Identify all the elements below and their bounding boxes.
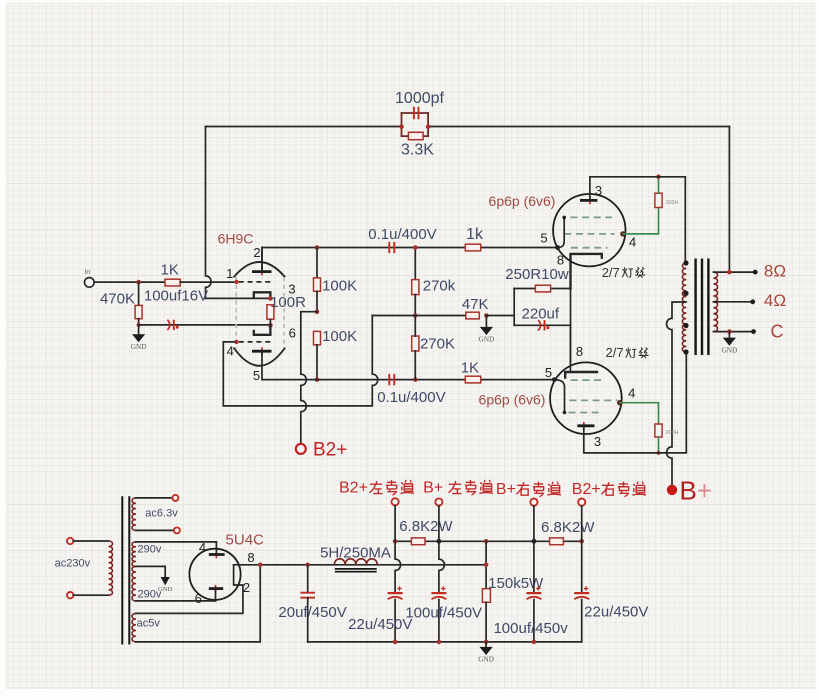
terminal B2+ (296, 444, 306, 454)
triode U1 cathode B (254, 325, 271, 335)
inductor L1 choke 5H/250MA (334, 559, 377, 565)
wire 290v top to rectifier plate (136, 541, 217, 543)
svg-text:100uf16V: 100uf16V (144, 287, 208, 304)
transformer T2 primary winding (109, 541, 113, 595)
terminal B+ right channel (530, 499, 537, 506)
pentode V2 cathode pin 8 (571, 254, 602, 289)
capacitor 0.1u/400V bottom coupling (389, 374, 394, 385)
svg-text:100uf/450v: 100uf/450v (493, 620, 568, 637)
node secondary ground tap (727, 329, 732, 334)
pentode V2 plate pin 3 (589, 197, 591, 205)
wire B+ left channel line (hop over bus) (439, 506, 444, 593)
svg-text:2/7: 2/7 (602, 265, 620, 280)
node cathode A / feedback / 100R top (268, 296, 273, 301)
terminal ac6.3v top (172, 495, 178, 501)
capacitor 20uf/450V (307, 565, 309, 593)
wire feedback top rail right segment (428, 126, 729, 128)
svg-text:GND: GND (158, 586, 173, 593)
node pin 4 (234, 340, 238, 344)
svg-text:1K: 1K (161, 262, 179, 279)
wire divider mid to B2+ (hops over both plate rails) (301, 312, 317, 444)
node divider mid (315, 309, 320, 314)
wire feedback right vertical to output transformer 8 ohm tap (728, 127, 730, 273)
wire cathode return to 100R bottom (139, 324, 271, 326)
svg-text:0.1u/400V: 0.1u/400V (377, 389, 445, 406)
svg-text:B+: B+ (680, 476, 713, 506)
wire ac6.3v bottom (136, 529, 174, 531)
triode U1 envelope bottom arc (234, 349, 284, 366)
wire secondary 8 ohm tap (713, 271, 755, 273)
svg-text:100K: 100K (322, 328, 357, 345)
wire mid rail to 47K (372, 315, 466, 317)
terminal B+ left channel (435, 498, 442, 505)
resistor 150k5W bleeder (485, 541, 487, 588)
resistor 100K divider upper (316, 248, 318, 278)
wire V3 plate rail to transformer primary bottom (584, 352, 687, 453)
node common terminal (751, 329, 756, 334)
wire bias block left rail (513, 289, 515, 326)
capacitor 100uf/450v right (526, 592, 541, 594)
wire ac5v bottom to B+ bus (136, 565, 260, 642)
wire B2+ left channel line (hop over bus) (395, 505, 400, 593)
pentode V3 envelope (550, 362, 622, 434)
svg-text:100uf/450V: 100uf/450V (405, 605, 482, 622)
ground GND mid (485, 316, 487, 327)
node 100R bottom / cathode B (268, 323, 273, 328)
svg-text:4: 4 (199, 540, 206, 555)
terminal B+ main (667, 485, 677, 495)
wire grid-B return (hop over lower rail) to pin 4 (223, 316, 377, 406)
transformer T2 winding 290v lower (132, 566, 136, 601)
svg-text:0.1u/400V: 0.1u/400V (368, 226, 436, 243)
svg-text:5H/250MA: 5H/250MA (320, 544, 391, 561)
resistor 3.3K (parallel block bottom branch) (402, 135, 429, 137)
svg-text:100K: 100K (322, 277, 357, 294)
resistor 270K lower (412, 336, 419, 351)
node primary bottom (683, 349, 688, 354)
node 22u left on ground bus (393, 640, 398, 645)
svg-text:2: 2 (243, 580, 250, 595)
svg-text:B+: B+ (496, 481, 516, 498)
svg-text:6.8K2W: 6.8K2W (399, 518, 453, 535)
svg-text:6p6p (6v6): 6p6p (6v6) (479, 391, 546, 407)
svg-text:6: 6 (195, 591, 202, 606)
svg-text:200H: 200H (666, 200, 679, 206)
svg-text:20uf/450V: 20uf/450V (278, 604, 346, 621)
svg-text:270k: 270k (423, 278, 456, 295)
svg-text:47K: 47K (462, 296, 489, 313)
wire screen to 200R (green) (623, 208, 659, 234)
wire 47K node to bias block (486, 315, 514, 317)
rectifier V4 plate pin 6 (215, 585, 217, 593)
node 4 ohm terminal (750, 299, 755, 304)
node screen resistor on plate rail (656, 175, 661, 180)
svg-text:220uf: 220uf (522, 306, 560, 323)
capacitor 100uf/450V left (431, 592, 446, 594)
node bleeder on ground bus (484, 640, 489, 645)
svg-text:5U4C: 5U4C (226, 532, 265, 549)
node screen grid pin 4 (620, 231, 625, 236)
capacitor 22u/450V right (574, 592, 589, 594)
triode U1 grid B dashed pin 4 (239, 341, 271, 343)
resistor 270k upper (414, 248, 416, 280)
resistor 250R10w cathode bias (514, 288, 570, 290)
transformer T1 core (694, 259, 696, 356)
svg-text:200H: 200H (666, 430, 679, 436)
wire ac5v top to filament pin 2 (136, 565, 243, 614)
svg-text:6: 6 (289, 325, 296, 340)
pentode V2 grids dashed (564, 217, 614, 247)
wire HV centre tap (136, 565, 165, 567)
wire grid jog bottom (554, 380, 564, 413)
node 20uf tap (305, 563, 310, 568)
capacitor 22u/450V left (388, 592, 403, 594)
wire 200R to plate rail bottom (green) (658, 437, 660, 453)
wire grid jog to dashed grid (558, 217, 565, 247)
svg-text:ac230v: ac230v (55, 558, 91, 570)
transformer T2 winding 290v upper (132, 542, 136, 567)
resistor 200R screen top (655, 193, 662, 207)
svg-text:3: 3 (594, 434, 601, 449)
svg-text:6p6p (6v6): 6p6p (6v6) (489, 193, 556, 209)
resistor 100R cathode coupling (267, 305, 274, 320)
node B2+ left / 6.8K left (393, 539, 398, 544)
svg-text:4: 4 (629, 235, 636, 250)
node primary tap upper (683, 291, 688, 296)
svg-text:B+: B+ (423, 480, 443, 497)
svg-text:ac5v: ac5v (137, 618, 161, 630)
triode U1 plate A pin 2 (261, 268, 263, 276)
wire 200R to plate rail (green) (658, 178, 660, 194)
node screen resistor on bottom rail (657, 451, 661, 455)
triode U1 envelope top arc (234, 262, 284, 277)
svg-text:B2+: B2+ (339, 480, 368, 497)
svg-text:B2+: B2+ (572, 481, 601, 498)
wire B2+ right channel line (581, 506, 583, 593)
node 47K right / ground tap (484, 313, 489, 318)
svg-text:ac6.3v: ac6.3v (145, 508, 178, 520)
capacitor 0.1u/400V top coupling (389, 242, 394, 253)
svg-text:GND: GND (478, 655, 494, 664)
svg-text:22u/450V: 22u/450V (584, 603, 648, 620)
ground GND centre tap arrow (164, 566, 166, 577)
node 8 ohm terminal (753, 270, 758, 275)
node screen grid pin 4 bottom (617, 400, 622, 405)
svg-text:22u/450V: 22u/450V (348, 616, 412, 633)
svg-text:3.3K: 3.3K (401, 141, 434, 158)
node primary top (683, 260, 688, 265)
svg-text:150k5W: 150k5W (488, 575, 544, 592)
transformer T2 winding ac5v (132, 613, 136, 642)
resistor 1K grid stopper (165, 279, 180, 286)
node pin 1 (234, 280, 238, 284)
svg-text:4Ω: 4Ω (764, 291, 786, 310)
node 100uf left on ground bus (437, 640, 442, 645)
transformer T2 winding ac6.3v (132, 498, 136, 531)
svg-text:250R10w: 250R10w (505, 266, 569, 283)
svg-text:8: 8 (247, 550, 254, 565)
ground GND main filter (485, 642, 487, 647)
resistor 1k top grid stopper (465, 244, 480, 251)
terminal mains top (67, 538, 73, 544)
wire feedback top rail left segment (206, 126, 402, 128)
pentode V2 envelope (553, 194, 625, 266)
wire ac6.3v top (136, 497, 172, 499)
terminal ac6.3v bottom (174, 527, 180, 533)
wire ground bus bottom (308, 641, 582, 643)
node 100K top tap (315, 245, 320, 250)
svg-text:GND: GND (131, 342, 147, 351)
node ac5v return on bus (258, 563, 263, 568)
node 270k mid (413, 313, 418, 318)
svg-text:1K: 1K (461, 359, 479, 376)
ground GND speaker common (728, 332, 730, 338)
node grid pin 5 entry (555, 245, 560, 250)
node 270K bottom on lower rail (413, 377, 418, 382)
svg-text:290v: 290v (137, 544, 161, 556)
svg-text:5: 5 (540, 231, 547, 246)
svg-text:2: 2 (253, 245, 260, 260)
svg-text:4: 4 (628, 385, 635, 400)
rectifier V4 envelope (189, 549, 240, 600)
svg-text:8: 8 (557, 253, 564, 268)
node primary tap lower (683, 323, 688, 328)
svg-text:8: 8 (576, 344, 583, 359)
node feedback joins 8 ohm tap (727, 270, 732, 275)
wire B+ right channel line (533, 506, 535, 593)
wire input to grid (94, 281, 165, 283)
resistor 47K (466, 312, 480, 319)
svg-text:1k: 1k (466, 226, 484, 243)
wire V2 plate rail to transformer primary top (590, 177, 685, 261)
svg-text:B2+: B2+ (313, 440, 347, 461)
triode U1 cathode A (254, 292, 271, 298)
svg-text:100R: 100R (270, 294, 306, 311)
wire 290v bottom to rectifier plate 2 (136, 600, 216, 602)
node 270k top tap (413, 245, 418, 250)
wire cathode rail between output tubes (570, 270, 572, 362)
resistor 1K bottom grid stopper (465, 376, 480, 383)
wire plate B rail to 6p6p V3 grid (262, 351, 554, 379)
pentode V3 cathode pin 8 (569, 325, 571, 372)
wire plate A rail to 6p6p V2 grid (262, 248, 558, 272)
rectifier V4 plate pin 4 (215, 551, 217, 559)
triode U1 grid A dashed pin 1 (239, 281, 271, 283)
node bleeder tap (484, 539, 489, 544)
svg-text:270K: 270K (420, 336, 455, 353)
node 100uf right on ground bus (532, 640, 537, 645)
svg-text:470K: 470K (100, 291, 135, 308)
node grid pin 5 entry bottom (552, 377, 557, 382)
capacitor 1000pf (parallel block top branch) (402, 112, 429, 114)
svg-text:5: 5 (253, 368, 260, 383)
transformer T2 core (121, 497, 123, 643)
node B+ right (532, 539, 537, 544)
wire 470K bottom to cathode cap node (138, 319, 140, 325)
terminal B2+ left channel (392, 498, 399, 505)
svg-text:GND: GND (478, 335, 494, 344)
svg-text:C: C (771, 322, 784, 342)
svg-text:GND: GND (721, 345, 737, 354)
wire parallel block side rails (402, 113, 429, 136)
wire B+ bus from rectifier (234, 564, 487, 566)
node feedback block left (399, 124, 404, 129)
wire mains bottom (73, 594, 108, 596)
transformer T1 secondary winding (713, 272, 717, 332)
svg-text:3: 3 (595, 183, 602, 198)
resistor 200R screen bottom (655, 424, 662, 437)
node input / 470K junction (136, 280, 141, 285)
pentode V3 plate pin 3 (583, 422, 585, 430)
capacitor 100uf16V cathode bypass (167, 320, 169, 330)
resistor 6.8K2W right (550, 538, 564, 545)
triode U1 envelope dashed sides (236, 277, 284, 349)
svg-text:in: in (85, 267, 91, 276)
pentode V3 grids dashed (569, 380, 618, 412)
svg-text:1: 1 (226, 266, 233, 281)
svg-text:1000pf: 1000pf (395, 90, 444, 107)
svg-text:4: 4 (227, 343, 234, 358)
svg-text:5: 5 (545, 365, 552, 380)
capacitor 220uf cathode bypass (514, 324, 570, 326)
wire 1K to pin 1 (180, 281, 236, 283)
wire feedback left vertical down to 6H9C cathode (hop over input wire) (206, 127, 271, 299)
svg-text:2/7: 2/7 (606, 345, 624, 360)
node B+ left (437, 539, 442, 544)
wire screen to 200R bottom (green) (620, 403, 659, 424)
triode U1 plate B pin 5 (261, 347, 263, 355)
svg-text:6H9C: 6H9C (218, 230, 254, 246)
node feedback block right (426, 124, 431, 129)
node 100K bottom on lower rail (315, 377, 320, 382)
node 470K / 100uf16V (137, 323, 141, 327)
wire secondary 4 ohm tap (713, 301, 752, 303)
resistor 100K divider lower (314, 331, 321, 344)
wire primary centre tap to B+ (hops) (667, 302, 686, 485)
terminal mains bottom (67, 592, 73, 598)
svg-text:8Ω: 8Ω (764, 261, 786, 280)
resistor 6.8K2W left (411, 538, 425, 545)
transformer T1 primary winding (682, 263, 686, 352)
wire B+ rail upper (395, 540, 582, 542)
terminal B2+ right channel (578, 499, 585, 506)
node B2+ right / 6.8K right (579, 539, 584, 544)
wire secondary common tap (713, 331, 753, 333)
ground GND input stage (138, 325, 140, 334)
wire mains top (73, 540, 108, 542)
resistor 470K grid leak (138, 282, 140, 305)
svg-text:6.8K2W: 6.8K2W (541, 519, 595, 536)
